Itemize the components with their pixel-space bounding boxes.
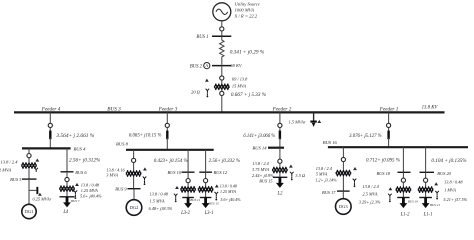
utility source label — [234, 1, 260, 18]
bus BUS 13 — [200, 198, 219, 206]
delta T7 — [289, 165, 293, 168]
wye T1 secondary — [206, 89, 210, 93]
breaker DG3 branch — [341, 157, 345, 161]
wire BUS20 to breaker — [425, 172, 427, 178]
breaker DG1 branch — [27, 154, 31, 158]
feeder 4 drop — [48, 112, 95, 148]
cable impedance BUS1-BUS2 zigzag — [220, 36, 265, 64]
svg-text:69 / 13.8: 69 / 13.8 — [232, 76, 248, 81]
wire T1 to main bus — [221, 96, 223, 113]
svg-text:0.712+ j0.095 %: 0.712+ j0.095 % — [366, 158, 400, 163]
wire T1 to breaker below — [221, 90, 223, 91]
svg-text:BUS 7: BUS 7 — [71, 199, 80, 203]
breaker L1-2 branch — [401, 178, 405, 182]
svg-text:Feeder 2: Feeder 2 — [272, 107, 292, 113]
bus BUS 11 — [182, 198, 200, 202]
svg-text:6.065+ j10.15 %: 6.065+ j10.15 % — [129, 134, 162, 139]
svg-text:Feeder 4: Feeder 4 — [41, 106, 61, 113]
transformer T8 13.8/2.4 — [336, 170, 351, 176]
ammeter at BUS 2 — [204, 63, 210, 69]
svg-text:0.25 MVAr: 0.25 MVAr — [33, 197, 52, 202]
wire BUS16 to BUS20 branch — [426, 147, 468, 172]
breaker below T1 — [220, 91, 224, 95]
transformer T1 69/13.8 — [214, 84, 229, 90]
wye T8 — [353, 179, 357, 183]
transformer T9 13.8/2.4 — [396, 187, 411, 193]
load L2 arrow — [276, 177, 284, 196]
wye T3 — [74, 190, 78, 194]
bus BUS 7 — [60, 197, 80, 203]
svg-text:L1-2: L1-2 — [400, 213, 411, 218]
wire breaker to T3 — [66, 182, 68, 186]
transformer T2 labels — [0, 160, 18, 173]
generator DG3 — [336, 199, 352, 215]
wire BUS10 to breaker — [187, 172, 189, 178]
bus BUS 20 — [420, 171, 452, 176]
wire T7 to BUS 15 — [279, 173, 281, 177]
svg-text:L3-2: L3-2 — [180, 211, 191, 216]
transformer T7 13.8/2.4 — [272, 167, 287, 173]
svg-text:1.5 MVAr: 1.5 MVAr — [289, 119, 306, 124]
svg-text:L3-1: L3-1 — [204, 211, 214, 216]
breaker DG2 branch — [132, 158, 136, 162]
delta T10 — [434, 182, 438, 185]
wire source to breaker — [221, 21, 223, 27]
transformer T10 labels — [443, 180, 467, 203]
wire BUS12 to breaker — [205, 172, 207, 178]
svg-text:0.104 + j0.135%: 0.104 + j0.135% — [431, 157, 467, 164]
wire T8 to BUS 17 — [342, 176, 344, 191]
delta T6 — [215, 184, 219, 187]
svg-text:6.141+ j3.066 %: 6.141+ j3.066 % — [243, 134, 275, 139]
wye T7 — [290, 172, 294, 176]
transformer T9 labels — [359, 184, 381, 205]
svg-text:BUS 6: BUS 6 — [75, 170, 87, 175]
transformer T6 13.8/0.48 — [198, 187, 213, 193]
breaker L3-2 branch — [186, 179, 190, 183]
svg-text:1.25 MVA: 1.25 MVA — [220, 189, 236, 194]
svg-text:0.341 + j0.29 %: 0.341 + j0.29 % — [230, 49, 265, 55]
svg-text:1.5 MVA: 1.5 MVA — [150, 199, 165, 204]
wire BUS8 to BUS10 branch — [154, 150, 188, 172]
wire BUS5 to DG1 — [28, 179, 30, 204]
bus BUS 12 — [199, 170, 228, 175]
delta tick capacitor BUS5 — [38, 193, 42, 196]
svg-text:BUS 13: BUS 13 — [209, 201, 220, 205]
svg-text:L1-1: L1-1 — [423, 213, 433, 218]
svg-text:69 KV: 69 KV — [231, 63, 243, 68]
wire T5 to BUS 11 — [187, 193, 189, 198]
transformer T5 labels — [149, 192, 173, 212]
svg-text:3.29+ j2.3%: 3.29+ j2.3% — [359, 200, 381, 205]
bus BUS 3 main 13.8kV bus — [14, 105, 445, 112]
bus BUS 8 — [116, 141, 214, 150]
delta T9 — [389, 187, 393, 190]
svg-text:L2: L2 — [277, 192, 284, 197]
transformer T6 labels — [220, 183, 242, 202]
svg-text:BUS 16: BUS 16 — [323, 140, 338, 145]
svg-text:BUS 18: BUS 18 — [376, 171, 390, 176]
wye T5 — [174, 194, 178, 198]
svg-text:0.423+ j0.154 %: 0.423+ j0.154 % — [154, 159, 188, 164]
wire T6 to BUS 13 — [205, 193, 207, 198]
transformer T3 13.8/0.48 — [60, 186, 75, 192]
svg-text:2.56+ j0.332 %: 2.56+ j0.332 % — [209, 159, 240, 164]
bus BUS 18 — [376, 171, 410, 176]
svg-text:BUS 2: BUS 2 — [190, 64, 203, 69]
breaker below source — [220, 27, 224, 31]
svg-text:BUS 17: BUS 17 — [322, 190, 336, 195]
bus BUS 14 — [252, 146, 284, 151]
load L4 arrow — [62, 197, 71, 215]
wire breaker to T10 — [425, 182, 427, 186]
svg-text:13.8 / 0.48: 13.8 / 0.48 — [444, 180, 463, 185]
wire T4 to BUS 9 — [133, 177, 135, 189]
svg-text:BUS 11: BUS 11 — [190, 198, 200, 202]
wire BUS16 to breaker DG3 branch — [342, 147, 344, 157]
breaker L4 branch — [65, 177, 69, 181]
wye T4 — [143, 177, 147, 181]
svg-text:13.8 / 2.4: 13.8 / 2.4 — [363, 184, 380, 189]
wire breaker to T7 — [279, 163, 281, 166]
capacitor 0.25 MVAr at BUS 5 — [29, 187, 52, 202]
svg-text:DG1: DG1 — [25, 209, 34, 214]
svg-text:DG3: DG3 — [339, 204, 348, 209]
svg-text:BUS 10: BUS 10 — [167, 170, 181, 175]
bus BUS 17 — [322, 190, 350, 195]
delta T3 — [75, 183, 79, 186]
bus BUS 2 — [190, 63, 243, 69]
svg-text:13.8 / 0.48: 13.8 / 0.48 — [150, 192, 169, 197]
svg-text:DG2: DG2 — [130, 205, 139, 210]
svg-text:BUS 21: BUS 21 — [430, 203, 441, 207]
bus BUS 9 — [115, 186, 140, 191]
load L3-2 arrow — [180, 198, 192, 217]
wire breaker to T4 — [133, 163, 135, 171]
transformer T7 labels — [252, 161, 274, 178]
wire breaker to T2 — [28, 158, 30, 163]
ground dot T4 — [144, 181, 146, 185]
svg-text:3.2 MVA: 3.2 MVA — [0, 167, 11, 172]
transformer T3 labels — [80, 182, 102, 198]
breaker L3-1 branch — [204, 179, 208, 183]
load L1-2 arrow — [400, 198, 411, 218]
wye T2 — [34, 168, 38, 172]
bus BUS 15 — [259, 177, 287, 183]
ground dot T3 — [75, 195, 77, 199]
ground dot T8 — [354, 183, 356, 187]
svg-text:5.6+ j40.4%: 5.6+ j40.4% — [221, 197, 242, 202]
delta T8 — [353, 167, 357, 170]
breaker above transformer T1 — [220, 76, 224, 80]
wire BUS8 to BUS12 branch — [206, 150, 240, 172]
wire BUS18 to breaker — [402, 172, 404, 178]
svg-text:13.8 KV: 13.8 KV — [422, 105, 439, 110]
svg-text:13.8 / 2.4: 13.8 / 2.4 — [253, 161, 270, 166]
svg-text:13.8 / 2.4: 13.8 / 2.4 — [316, 166, 333, 171]
wire BUS2 to breaker — [221, 66, 223, 76]
feeder 1 drop — [349, 112, 391, 147]
wire BUS4 to BUS6 branch — [67, 148, 101, 171]
svg-text:3.564+ j 2.661 %: 3.564+ j 2.661 % — [55, 133, 94, 139]
wire breaker to T9 — [402, 182, 404, 186]
svg-text:3.5 Ω: 3.5 Ω — [295, 173, 306, 178]
generator DG2 — [126, 200, 142, 216]
svg-text:1.2+ j3.14%: 1.2+ j3.14% — [315, 178, 337, 183]
bus BUS 19 — [397, 198, 418, 204]
transformer T4 labels — [106, 168, 125, 178]
svg-text:BUS 1: BUS 1 — [196, 35, 208, 40]
ground dot T10 — [436, 195, 438, 199]
svg-text:BUS 19: BUS 19 — [408, 200, 419, 204]
feeder 2 drop — [243, 112, 282, 147]
transformer T4 13.8/4.16 — [126, 171, 141, 177]
bus BUS 10 — [167, 170, 194, 175]
transformer T1 labels — [231, 76, 267, 97]
svg-text:0.667 + j 5.33 %: 0.667 + j 5.33 % — [231, 92, 267, 98]
delta T4 — [143, 167, 147, 170]
wire BUS4 to breaker DG1 branch — [28, 148, 30, 153]
wire BUS17 to DG3 — [342, 191, 344, 199]
svg-text:Feeder 1: Feeder 1 — [379, 107, 399, 113]
load L3-1 arrow — [202, 198, 214, 217]
svg-text:5 MVA: 5 MVA — [316, 171, 328, 176]
svg-text:2.56+ j0.312%: 2.56+ j0.312% — [69, 158, 101, 164]
transformer T10 13.8/0.48 — [418, 187, 433, 193]
svg-text:13.8 / 2.4: 13.8 / 2.4 — [1, 160, 19, 165]
svg-text:Feeder 3: Feeder 3 — [158, 107, 178, 113]
bus BUS 16 — [323, 140, 468, 147]
svg-text:A: A — [205, 63, 209, 68]
svg-text:BUS 5: BUS 5 — [10, 177, 22, 182]
utility source G1 — [213, 3, 231, 21]
svg-text:3.75 MVA: 3.75 MVA — [252, 167, 269, 172]
feeder 3 drop — [129, 112, 169, 149]
svg-text:BUS 12: BUS 12 — [214, 170, 228, 175]
transformer T2 13.8/2.4 — [22, 163, 37, 169]
wire breaker to T8 — [342, 162, 344, 170]
transformer T8 labels — [315, 166, 337, 183]
delta T2 — [35, 159, 39, 162]
svg-text:1000 MVA: 1000 MVA — [235, 7, 255, 12]
bus BUS 5 — [10, 177, 36, 182]
wire BUS6 to breaker — [66, 172, 68, 178]
svg-text:15 MVA: 15 MVA — [232, 83, 247, 88]
wire T10 to BUS 21 — [425, 193, 427, 198]
svg-text:BUS 15: BUS 15 — [259, 178, 273, 183]
load L1-1 arrow — [422, 198, 433, 218]
svg-text:6.48+ j38.3%: 6.48+ j38.3% — [149, 206, 173, 211]
wire BUS14 to breaker — [279, 148, 281, 159]
svg-text:1.25 MVA: 1.25 MVA — [81, 188, 98, 193]
ground resistor dot T1 — [207, 93, 209, 97]
svg-text:BUS 3: BUS 3 — [107, 107, 121, 113]
breaker L1-1 branch — [424, 178, 428, 182]
wire BUS8 to breaker DG2 branch — [133, 150, 135, 159]
svg-text:3.076+ j5.127 %: 3.076+ j5.127 % — [349, 134, 382, 139]
wire BUS16 to BUS18 branch — [366, 147, 403, 172]
delta T1 primary — [205, 79, 209, 82]
breaker L2 branch — [278, 159, 282, 163]
svg-text:1 MVA: 1 MVA — [444, 188, 456, 193]
wire T9 to BUS 19 — [402, 193, 404, 198]
bus BUS 21 — [419, 198, 440, 207]
svg-text:BUS 20: BUS 20 — [437, 171, 451, 176]
svg-text:13.8 / 0.48: 13.8 / 0.48 — [220, 183, 237, 188]
ground dot T6 — [215, 196, 217, 200]
bus BUS 1 — [196, 35, 231, 40]
wire breaker to T1 — [221, 80, 223, 83]
generator DG1 — [22, 204, 36, 218]
wye T10 — [435, 191, 439, 195]
svg-text:5.6+ j40.4%: 5.6+ j40.4% — [80, 193, 102, 198]
delta of capacitor bank — [317, 120, 321, 123]
wye T9 — [388, 194, 392, 198]
wye T6 — [215, 192, 219, 196]
transformer T5 13.8/0.48 — [181, 187, 196, 193]
capacitor bank 1.5 MVAr on main bus — [289, 112, 317, 127]
delta T5 — [175, 186, 179, 189]
svg-text:3 MVA: 3 MVA — [106, 173, 118, 178]
svg-text:X / R = 22.2: X / R = 22.2 — [234, 14, 258, 19]
wire breaker to T6 — [205, 183, 207, 186]
svg-text:13.8 / 0.48: 13.8 / 0.48 — [81, 182, 100, 187]
wire breaker to BUS 1 — [221, 31, 223, 36]
svg-text:Utility Source: Utility Source — [235, 1, 260, 6]
svg-text:BUS 4: BUS 4 — [74, 146, 87, 151]
wire T2 to BUS 5 — [28, 169, 30, 179]
svg-text:20 Ω: 20 Ω — [191, 89, 200, 94]
svg-text:L4: L4 — [62, 210, 69, 215]
ground dot T7 — [291, 176, 293, 180]
bus BUS 4 — [22, 146, 86, 151]
wire T3 to BUS 7 — [66, 192, 68, 197]
ground dot T5 — [175, 198, 177, 202]
wire BUS9 to DG2 — [133, 189, 135, 200]
svg-text:2.5 MVA: 2.5 MVA — [363, 191, 378, 196]
svg-text:BUS 8: BUS 8 — [116, 141, 129, 146]
bus BUS 6 — [61, 170, 88, 175]
wire breaker to T5 — [187, 183, 189, 186]
svg-text:BUS 9: BUS 9 — [115, 186, 127, 191]
svg-text:5.21+ j57.5%: 5.21+ j57.5% — [443, 197, 467, 202]
ground dot T9 — [389, 198, 391, 202]
svg-text:BUS 14: BUS 14 — [252, 146, 267, 151]
